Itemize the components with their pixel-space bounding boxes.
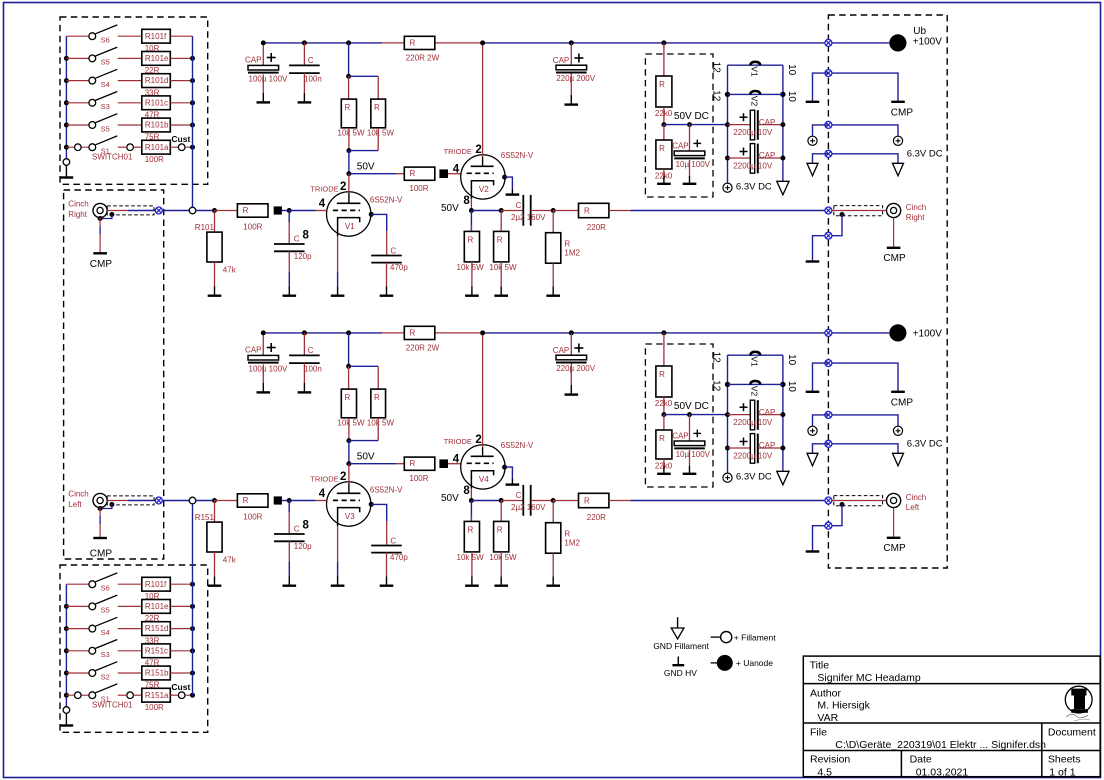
svg-text:CAP: CAP bbox=[553, 346, 569, 355]
ground GND Fillament (left) bbox=[807, 453, 818, 466]
ground (R 1M2) bbox=[552, 287, 554, 296]
ground CMP (Cinch Left output) bbox=[893, 508, 895, 538]
svg-text:100R: 100R bbox=[145, 703, 164, 712]
svg-text:8: 8 bbox=[463, 195, 470, 207]
svg-text:Document: Document bbox=[1048, 726, 1096, 738]
switch S5 bbox=[64, 604, 69, 609]
svg-text:M. Hiersigk: M. Hiersigk bbox=[817, 700, 870, 712]
svg-text:R101d: R101d bbox=[145, 76, 169, 85]
switch S6 bbox=[66, 35, 89, 37]
svg-text:12: 12 bbox=[711, 62, 722, 74]
svg-text:V2: V2 bbox=[750, 96, 760, 107]
svg-text:Ub: Ub bbox=[913, 26, 926, 37]
capacitor CAP 2200u 10V (upper) bbox=[725, 412, 730, 417]
svg-text:C: C bbox=[308, 346, 314, 355]
resistor R 22k0 (upper) bbox=[661, 40, 666, 45]
pin 8 lead V2 bbox=[470, 190, 472, 198]
switch S2 bbox=[64, 671, 69, 676]
svg-text:V3: V3 bbox=[345, 512, 355, 521]
ground (R 22k0 lower) bbox=[663, 466, 665, 474]
svg-text:S3: S3 bbox=[101, 102, 110, 111]
wire heater rail left bbox=[727, 355, 729, 473]
supply +6.3V DC (heater) bbox=[723, 183, 732, 192]
shield bond output bbox=[840, 212, 845, 217]
sheet connector output shield bbox=[825, 522, 832, 529]
connector pin (switch common) bbox=[63, 159, 70, 166]
svg-text:220R 2W: 220R 2W bbox=[406, 343, 440, 352]
svg-text:CAP: CAP bbox=[245, 346, 261, 355]
svg-text:100R: 100R bbox=[243, 222, 262, 231]
dashed box input connector panel bbox=[64, 190, 164, 559]
svg-text:6S52N-V: 6S52N-V bbox=[370, 196, 403, 205]
svg-text:S6: S6 bbox=[101, 36, 110, 45]
svg-text:50V: 50V bbox=[441, 203, 459, 214]
sheet connector HV ground bbox=[825, 70, 832, 77]
connector pin Cust bbox=[170, 146, 178, 148]
resistor R 1M2 bbox=[552, 501, 554, 523]
ferrite bead (black square, input) bbox=[274, 206, 282, 214]
ground GND HV (left) bbox=[806, 101, 820, 103]
svg-text:R: R bbox=[497, 235, 503, 244]
svg-text:R: R bbox=[584, 497, 590, 506]
ferrite bead (black square) bbox=[439, 169, 448, 178]
switch S1 bbox=[64, 693, 69, 698]
svg-text:CMP: CMP bbox=[90, 548, 113, 559]
svg-text:Date: Date bbox=[910, 753, 932, 765]
svg-text:4: 4 bbox=[453, 454, 460, 466]
svg-text:4: 4 bbox=[319, 198, 326, 210]
svg-text:GND HV: GND HV bbox=[664, 668, 697, 678]
ground symbol legend GND HV bbox=[677, 657, 679, 666]
wire cathode V1 to bypass cap bbox=[369, 212, 374, 217]
resistor R151 47k (input load) bbox=[214, 501, 216, 523]
svg-text:12: 12 bbox=[711, 380, 722, 392]
ground CMP (Cinch Left) bbox=[99, 508, 101, 516]
svg-text:CMP: CMP bbox=[891, 398, 914, 409]
heater V1 (pins 12-10) bbox=[728, 64, 783, 66]
wire cathode V4 internal-shield to ground bbox=[502, 465, 507, 470]
svg-text:10k 5W: 10k 5W bbox=[457, 263, 485, 272]
svg-text:V1: V1 bbox=[345, 222, 355, 231]
svg-text:10µ 100V: 10µ 100V bbox=[676, 450, 711, 459]
legend + Fillament bbox=[711, 636, 721, 638]
svg-text:12: 12 bbox=[711, 352, 722, 364]
ground (output shield) bbox=[806, 550, 820, 552]
supply +6.3V DC (right) bbox=[893, 426, 902, 435]
svg-text:+ Uanode: + Uanode bbox=[736, 658, 773, 668]
svg-text:S2: S2 bbox=[101, 672, 110, 681]
svg-text:C: C bbox=[390, 246, 396, 255]
svg-text:R101e: R101e bbox=[145, 602, 169, 611]
ground GND Fillament (heater) bbox=[782, 467, 784, 472]
pin 8 cathode lead V3 to ground bbox=[337, 517, 339, 526]
switch S4 bbox=[64, 626, 69, 631]
resistor R101e 22R bbox=[142, 600, 171, 614]
sheet connector 6.3V ground bbox=[825, 440, 832, 447]
svg-text:470p: 470p bbox=[390, 263, 408, 272]
capacitor CAP 2200u 10V (upper) bbox=[725, 122, 730, 127]
wire attenuator left rail bbox=[65, 584, 67, 706]
svg-text:R: R bbox=[410, 459, 416, 468]
ground GND Fillament (heater) bbox=[782, 177, 784, 182]
svg-text:1M2: 1M2 bbox=[564, 539, 580, 548]
sheet connector +6.3V bbox=[825, 411, 832, 418]
ground (C 470p) bbox=[386, 287, 388, 296]
resistor R 10k 5W (cathode load left) bbox=[470, 211, 472, 232]
svg-text:CAP: CAP bbox=[672, 432, 688, 441]
ground CMP (Cinch Right output) bbox=[893, 218, 895, 248]
wire heater rail right bbox=[782, 65, 784, 176]
svg-text:220R: 220R bbox=[587, 513, 606, 522]
svg-text:R151d: R151d bbox=[145, 624, 169, 633]
dashed box output/power panel bbox=[828, 15, 947, 568]
capacitor C 470p bbox=[371, 255, 402, 257]
terminal Ub +100V bbox=[832, 332, 889, 334]
capacitor C 100n bbox=[302, 330, 307, 335]
wire cathode V2 internal-shield to ground bbox=[502, 175, 507, 180]
resistor R 10k 5W (right) bbox=[371, 389, 386, 418]
svg-text:S3: S3 bbox=[101, 650, 110, 659]
sheet connector +100V bbox=[825, 329, 832, 336]
resistor R101f 10R bbox=[142, 577, 171, 591]
ground (C 120p) bbox=[288, 577, 290, 586]
svg-text:10: 10 bbox=[786, 64, 797, 76]
shield bond input bbox=[109, 212, 114, 217]
svg-text:8: 8 bbox=[463, 485, 470, 497]
wire input signal bbox=[107, 500, 128, 502]
shielded cable (dashed) output bbox=[834, 206, 883, 216]
resistor R101 47k (input load) bbox=[214, 211, 216, 233]
svg-text:R101: R101 bbox=[195, 223, 215, 232]
svg-text:R: R bbox=[410, 328, 416, 337]
connector pin (S1 right) bbox=[127, 144, 134, 151]
capacitor C 100n bbox=[302, 40, 307, 45]
svg-text:C: C bbox=[294, 234, 300, 243]
resistor R101b 75R bbox=[142, 118, 171, 132]
svg-text:C:\D\Geräte_220319\01 Elektr .: C:\D\Geräte_220319\01 Elektr ... Signife… bbox=[835, 739, 1046, 751]
svg-text:50V DC: 50V DC bbox=[674, 111, 709, 122]
svg-text:50V DC: 50V DC bbox=[674, 401, 709, 412]
ground GND Fillament (right) bbox=[893, 163, 904, 176]
capacitor CAP 2200u 10V (lower) bbox=[725, 446, 730, 451]
svg-text:Left: Left bbox=[906, 503, 920, 512]
svg-text:1M2: 1M2 bbox=[564, 249, 580, 258]
svg-text:TRIODE: TRIODE bbox=[310, 475, 338, 484]
svg-text:2: 2 bbox=[340, 471, 346, 483]
capacitor CAP 100u 100V bbox=[262, 333, 264, 356]
wire 10k resistors to 50V node bbox=[348, 128, 350, 151]
switch S1 bbox=[64, 145, 69, 150]
switch S6 bbox=[66, 583, 89, 585]
svg-text:Cust: Cust bbox=[171, 682, 190, 692]
svg-text:V2: V2 bbox=[750, 386, 760, 397]
svg-text:47k: 47k bbox=[223, 266, 237, 275]
svg-text:R: R bbox=[374, 393, 380, 402]
svg-text:CAP: CAP bbox=[759, 441, 775, 450]
svg-text:R: R bbox=[374, 103, 380, 112]
ferrite bead (black square) bbox=[439, 459, 448, 468]
sheet connector output shield bbox=[825, 232, 832, 239]
svg-text:C: C bbox=[308, 56, 314, 65]
svg-text:S5: S5 bbox=[101, 606, 110, 615]
wire +100V rail (Left channel) bbox=[263, 332, 382, 334]
connector pin Cust bbox=[170, 694, 178, 696]
sheet connector +6.3V bbox=[825, 121, 832, 128]
triode V2 6S52N-V bbox=[461, 155, 505, 199]
svg-text:2200µ 10V: 2200µ 10V bbox=[733, 452, 773, 461]
svg-text:GND Fillament: GND Fillament bbox=[653, 641, 709, 651]
ground GND HV CMP (right) bbox=[891, 101, 905, 103]
svg-text:6S52N-V: 6S52N-V bbox=[501, 151, 534, 160]
svg-text:CMP: CMP bbox=[891, 108, 914, 119]
ground (R 22k0 lower) bbox=[663, 176, 665, 184]
resistor R151b 75R bbox=[142, 666, 171, 680]
svg-text:10: 10 bbox=[786, 91, 797, 103]
resistor R 10k 5W (left) bbox=[341, 389, 356, 418]
wire +100V rail (Right channel) bbox=[263, 42, 382, 44]
svg-text:File: File bbox=[810, 726, 827, 738]
capacitor C 2u2 160V (output coupling) bbox=[501, 500, 523, 502]
supply +6.3V DC (left) bbox=[808, 426, 817, 435]
svg-text:4: 4 bbox=[319, 488, 326, 500]
wire heater rail right bbox=[782, 355, 784, 466]
svg-text:CAP: CAP bbox=[245, 56, 261, 65]
capacitor C 470p bbox=[371, 545, 402, 547]
sheet connector (input) bbox=[155, 497, 162, 504]
sheet connector 6.3V ground bbox=[825, 150, 832, 157]
svg-text:10k 5W: 10k 5W bbox=[457, 553, 485, 562]
svg-text:2µ2 160V: 2µ2 160V bbox=[511, 503, 546, 512]
svg-text:220µ 200V: 220µ 200V bbox=[556, 74, 596, 83]
svg-text:10k 5W: 10k 5W bbox=[489, 553, 517, 562]
triode V1 6S52N-V bbox=[327, 192, 371, 236]
heater V2 (pins 12-10) bbox=[725, 382, 730, 387]
resistor R 100R (input series) bbox=[215, 210, 238, 212]
svg-text:R: R bbox=[659, 144, 665, 153]
capacitor CAP 2200u 10V (lower) bbox=[725, 156, 730, 161]
wire attenuator output rail bbox=[192, 36, 194, 207]
sheet connector output bbox=[825, 497, 832, 504]
resistor R101a 100R bbox=[142, 140, 171, 154]
svg-text:R: R bbox=[243, 206, 249, 215]
ground (attenuator) bbox=[65, 713, 67, 725]
resistor R 10k 5W (left) bbox=[341, 99, 356, 128]
resistor R151a 100R bbox=[142, 688, 171, 702]
capacitor C 120p (grid) bbox=[288, 501, 290, 513]
node 50V DC bbox=[661, 122, 666, 127]
svg-text:12: 12 bbox=[711, 90, 722, 102]
shield bond output bbox=[840, 502, 845, 507]
wire attenuator left rail bbox=[65, 36, 67, 158]
ground (cathode load right) bbox=[500, 287, 502, 296]
connector Cinch Left (input) bbox=[93, 493, 107, 507]
svg-text:6S52N-V: 6S52N-V bbox=[370, 486, 403, 495]
svg-text:R: R bbox=[345, 393, 351, 402]
svg-text:8: 8 bbox=[303, 519, 310, 531]
node 50V DC bbox=[661, 412, 666, 417]
ground (cathode load right) bbox=[500, 577, 502, 586]
svg-text:8: 8 bbox=[303, 229, 310, 241]
dashed box 50V DC divider bbox=[645, 54, 713, 197]
svg-text:220R 2W: 220R 2W bbox=[406, 53, 440, 62]
dashed box 50V DC divider bbox=[645, 344, 713, 487]
svg-text:R: R bbox=[410, 38, 416, 47]
ground GND Fillament (right) bbox=[893, 453, 904, 466]
svg-text:R: R bbox=[345, 103, 351, 112]
svg-text:220µ 200V: 220µ 200V bbox=[556, 364, 596, 373]
connector Cinch Right (input) bbox=[93, 203, 107, 217]
sheet connector (input) bbox=[155, 207, 162, 214]
wire attenuator output rail bbox=[192, 504, 194, 695]
svg-text:R151: R151 bbox=[195, 513, 215, 522]
wire input signal bbox=[107, 210, 128, 212]
pin 8 cathode lead V1 to ground bbox=[337, 227, 339, 236]
svg-text:10k 5W: 10k 5W bbox=[489, 263, 517, 272]
resistor R 10k 5W (right) bbox=[371, 99, 386, 128]
supply +6.3V DC (heater) bbox=[723, 473, 732, 482]
svg-text:10µ 100V: 10µ 100V bbox=[676, 160, 711, 169]
svg-text:01.03.2021: 01.03.2021 bbox=[916, 766, 969, 778]
svg-text:6.3V DC: 6.3V DC bbox=[736, 472, 772, 483]
svg-text:2200µ 10V: 2200µ 10V bbox=[733, 418, 773, 427]
svg-text:10: 10 bbox=[786, 354, 797, 366]
svg-text:R151a: R151a bbox=[145, 691, 169, 700]
svg-text:TRIODE: TRIODE bbox=[310, 185, 338, 194]
title block logo bbox=[1065, 686, 1092, 713]
resistor R 220R (output) bbox=[553, 210, 578, 212]
svg-text:6.3V DC: 6.3V DC bbox=[736, 182, 772, 193]
svg-text:TRIODE: TRIODE bbox=[444, 437, 472, 446]
svg-text:CAP: CAP bbox=[759, 118, 775, 127]
resistor R 220R 2W bbox=[404, 326, 435, 339]
resistor R 10k 5W (cathode load right) bbox=[500, 211, 502, 232]
svg-text:R: R bbox=[659, 370, 665, 379]
svg-text:47k: 47k bbox=[223, 556, 237, 565]
svg-text:C: C bbox=[516, 491, 522, 500]
svg-text:2200µ 10V: 2200µ 10V bbox=[733, 128, 773, 137]
shield bond input bbox=[109, 502, 114, 507]
svg-text:Sheets: Sheets bbox=[1048, 753, 1081, 765]
svg-text:6S52N-V: 6S52N-V bbox=[501, 441, 534, 450]
svg-text:100R: 100R bbox=[243, 512, 262, 521]
resistor R 22k0 (lower) bbox=[663, 125, 665, 140]
ground (attenuator) bbox=[65, 165, 67, 177]
svg-text:2: 2 bbox=[475, 434, 481, 446]
svg-text:220R: 220R bbox=[587, 223, 606, 232]
supply +6.3V DC (left) bbox=[808, 136, 817, 145]
svg-text:R: R bbox=[468, 525, 474, 534]
svg-text:C: C bbox=[516, 201, 522, 210]
svg-text:100µ 100V: 100µ 100V bbox=[249, 364, 289, 373]
connector pin (switch common) bbox=[63, 707, 70, 714]
resistor R 100R (grid stopper V4) bbox=[404, 457, 435, 470]
ground (output shield) bbox=[806, 260, 820, 262]
svg-text:470p: 470p bbox=[390, 553, 408, 562]
terminal Ub +100V bbox=[832, 42, 889, 44]
ground (C 120p) bbox=[288, 287, 290, 296]
connector pin to attenuator bbox=[189, 497, 196, 504]
resistor R 100R (input series) bbox=[215, 500, 238, 502]
svg-text:6.3V DC: 6.3V DC bbox=[907, 439, 943, 450]
svg-text:R101f: R101f bbox=[145, 580, 167, 589]
wire cathode V3 to bypass cap bbox=[369, 502, 374, 507]
svg-text:R: R bbox=[659, 434, 665, 443]
dashed box input attenuator SWITCH01 bbox=[60, 17, 208, 184]
svg-text:S5: S5 bbox=[101, 124, 110, 133]
legend + Uanode bbox=[711, 662, 718, 664]
ground (C 470p) bbox=[386, 577, 388, 586]
svg-text:2: 2 bbox=[475, 144, 481, 156]
svg-text:Title: Title bbox=[810, 660, 830, 672]
connector Cinch Left (output) bbox=[887, 493, 901, 507]
svg-text:V1: V1 bbox=[750, 356, 760, 367]
svg-text:R101a: R101a bbox=[145, 143, 169, 152]
svg-text:50V: 50V bbox=[441, 493, 459, 504]
svg-text:R: R bbox=[584, 207, 590, 216]
sheet connector +100V bbox=[825, 39, 832, 46]
svg-text:120p: 120p bbox=[294, 252, 312, 261]
svg-text:SWITCH01: SWITCH01 bbox=[92, 700, 133, 709]
svg-text:R: R bbox=[659, 80, 665, 89]
svg-text:R: R bbox=[468, 235, 474, 244]
pin 8 lead V4 bbox=[470, 480, 472, 488]
heater V2 (pins 12-10) bbox=[725, 92, 730, 97]
wire output to connector bbox=[609, 210, 631, 212]
svg-text:R101e: R101e bbox=[145, 54, 169, 63]
svg-text:Signifer MC Headamp: Signifer MC Headamp bbox=[817, 672, 920, 684]
connector pin to attenuator bbox=[189, 207, 196, 214]
svg-text:CMP: CMP bbox=[883, 543, 906, 554]
svg-text:50V: 50V bbox=[357, 451, 375, 462]
resistor R 220R (output) bbox=[553, 500, 578, 502]
svg-text:2: 2 bbox=[340, 181, 346, 193]
triode V4 6S52N-V bbox=[461, 445, 505, 489]
svg-text:Cinch: Cinch bbox=[68, 489, 88, 498]
ground (R 1M2) bbox=[552, 577, 554, 586]
wire anode supply to 10k resistors bbox=[346, 330, 351, 335]
svg-text:V4: V4 bbox=[479, 475, 489, 484]
svg-text:10k 5W: 10k 5W bbox=[367, 129, 395, 138]
svg-text:100n: 100n bbox=[304, 74, 322, 83]
resistor R151c 47R bbox=[142, 644, 171, 658]
svg-text:+100V: +100V bbox=[913, 329, 943, 340]
shielded cable (dashed) output bbox=[834, 496, 883, 506]
shielded cable (dashed) input bbox=[107, 206, 154, 215]
svg-text:100R: 100R bbox=[409, 474, 428, 483]
svg-text:100µ 100V: 100µ 100V bbox=[249, 74, 289, 83]
svg-text:CMP: CMP bbox=[90, 259, 113, 270]
wire 50V node to grid resistor bbox=[349, 173, 396, 175]
capacitor C 2u2 160V (output coupling) bbox=[501, 210, 523, 212]
svg-text:120p: 120p bbox=[294, 542, 312, 551]
svg-text:R101f: R101f bbox=[145, 32, 167, 41]
svg-text:C: C bbox=[390, 536, 396, 545]
connector Cinch Right (output) bbox=[887, 203, 901, 217]
svg-text:Cust: Cust bbox=[171, 134, 190, 144]
ground symbol legend GND Fillament bbox=[677, 617, 679, 628]
resistor R 10k 5W (cathode load left) bbox=[470, 501, 472, 522]
heater V1 (pins 12-10) bbox=[728, 354, 783, 356]
svg-text:CMP: CMP bbox=[883, 253, 906, 264]
svg-text:Right: Right bbox=[68, 210, 87, 219]
wire anode supply to 10k resistors bbox=[346, 40, 351, 45]
sheet connector output bbox=[825, 207, 832, 214]
svg-text:C: C bbox=[294, 524, 300, 533]
resistor R 100R (grid stopper V2) bbox=[404, 167, 435, 180]
ground GND Fillament (left) bbox=[807, 163, 818, 176]
svg-text:6.3V DC: 6.3V DC bbox=[907, 149, 943, 160]
title block frame bbox=[803, 656, 1100, 777]
